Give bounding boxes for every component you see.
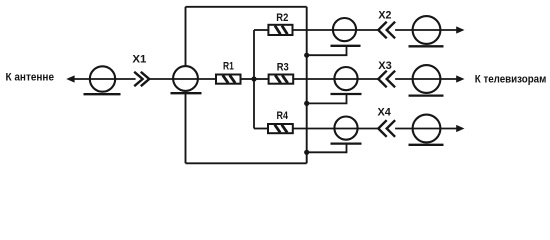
connector X4 box-side circle — [334, 117, 357, 140]
shield bar under box-side X3 connector — [331, 93, 362, 95]
shield wire X2 to enclosure — [307, 46, 347, 55]
arrowhead to TV 3 — [456, 125, 464, 132]
svg-text:X2: X2 — [378, 10, 391, 22]
shield bar under box-side X1 connector — [171, 92, 202, 94]
chevron pair of connector X4 — [378, 120, 395, 137]
resistor R1 — [216, 75, 241, 84]
arrowhead to antenna — [66, 75, 74, 82]
svg-text:R3: R3 — [277, 61, 289, 73]
bus wire feeding R2 R3 R4 — [253, 30, 255, 129]
wire bus to R2 — [254, 29, 268, 31]
wire antenna feeder — [74, 78, 136, 80]
wire X1 to splitter input — [149, 78, 216, 80]
connector X3 box-side circle — [334, 67, 357, 90]
connector X2 box-side circle — [333, 18, 356, 41]
resistor R2 — [268, 25, 292, 35]
node dot X2 shield on enclosure — [304, 53, 309, 58]
wire R3 to connector X3 — [293, 78, 378, 80]
shield wire X3 to enclosure — [307, 94, 347, 103]
connector X4 cable-side circle — [413, 115, 441, 143]
shield bar under box-side X2 connector — [331, 45, 361, 47]
ground bar under X2 cable connector — [409, 45, 444, 47]
connector X3 cable-side circle — [413, 65, 441, 93]
ground bar under X1 cable connector — [84, 93, 121, 95]
arrowhead to TV 1 — [456, 26, 464, 33]
wire X3 to TV cable — [395, 78, 456, 80]
wire X2 to TV cable — [395, 29, 456, 31]
svg-text:К антенне: К антенне — [6, 72, 55, 84]
svg-text:X1: X1 — [132, 54, 147, 66]
chevron pair of connector X2 — [378, 22, 395, 39]
connector X2 cable-side circle — [413, 16, 441, 44]
node dot X4 shield on enclosure — [304, 150, 309, 155]
svg-text:R4: R4 — [277, 110, 289, 122]
svg-text:R2: R2 — [276, 12, 288, 24]
wire R1 to junction — [241, 78, 255, 80]
chevron pair of connector X1 — [134, 72, 149, 86]
resistor R3 — [269, 75, 294, 84]
enclosure box — [186, 7, 307, 164]
wire bus to R4 — [254, 128, 268, 130]
connector X1 box-side circle — [173, 66, 198, 91]
wire bus to R3 — [254, 78, 269, 80]
connector X1 cable-side circle — [90, 66, 115, 91]
svg-text:R1: R1 — [223, 60, 234, 72]
svg-text:X3: X3 — [378, 60, 392, 72]
ground bar under X4 cable connector — [409, 144, 444, 146]
svg-text:К телевизорам: К телевизорам — [475, 74, 547, 86]
shield wire X4 to enclosure — [307, 144, 347, 153]
ground bar under X3 cable connector — [409, 94, 444, 96]
chevron pair of connector X3 — [378, 71, 395, 88]
wire R2 to connector X2 — [293, 29, 379, 31]
node dot X3 shield on enclosure — [304, 101, 309, 106]
wire X4 to TV cable — [395, 128, 456, 130]
svg-text:X4: X4 — [378, 107, 392, 119]
shield bar under box-side X4 connector — [331, 142, 362, 144]
node junction dot on main line — [251, 76, 256, 81]
resistor R4 — [268, 124, 293, 133]
wire R4 to connector X4 — [293, 128, 378, 130]
arrowhead to TV 2 — [456, 75, 464, 82]
